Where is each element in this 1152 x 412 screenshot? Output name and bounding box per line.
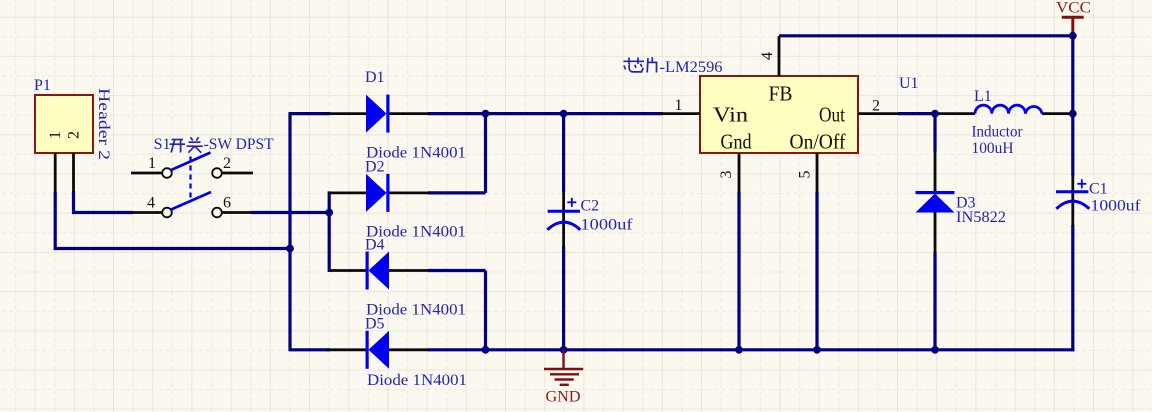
svg-text:-SW DPST: -SW DPST <box>204 136 274 153</box>
diode D3 pins <box>934 151 937 192</box>
diode D3 body <box>916 191 955 213</box>
wire: bottom ground bus <box>290 348 1074 351</box>
wire: Out row to L1 <box>898 112 938 115</box>
switch S1 label <box>154 136 274 153</box>
svg-text:2: 2 <box>66 131 83 139</box>
junction dot pin5 bus <box>813 346 821 354</box>
svg-text:Out: Out <box>819 103 845 127</box>
header P1 box <box>35 95 93 153</box>
svg-text:Header 2: Header 2 <box>95 88 112 160</box>
switch link dashed <box>189 157 191 200</box>
svg-text:1: 1 <box>675 97 683 114</box>
svg-text:Diode 1N4001: Diode 1N4001 <box>367 372 467 389</box>
svg-text:On/Off: On/Off <box>790 130 846 154</box>
svg-text:GND: GND <box>546 389 581 406</box>
svg-text:D2: D2 <box>365 159 385 176</box>
P1 pin 1 stub <box>54 153 57 193</box>
svg-text:1: 1 <box>47 131 64 139</box>
glyph 芯 <box>624 58 645 72</box>
junction dot pin3 bus <box>735 346 743 354</box>
diode D4 pins <box>329 269 367 272</box>
svg-text:VCC: VCC <box>1056 0 1091 17</box>
svg-text:L1: L1 <box>974 88 992 105</box>
chip pin 2 lead <box>858 112 898 115</box>
svg-text:1000uf: 1000uf <box>1091 198 1142 215</box>
diode D5 pins <box>327 348 367 351</box>
chip pin 3 lead <box>738 153 741 193</box>
svg-text:1000uf: 1000uf <box>581 217 634 234</box>
glyph 片 <box>647 57 657 72</box>
chip pin 5 lead <box>816 153 819 193</box>
VCC power symbol <box>1062 17 1084 36</box>
svg-text:4: 4 <box>147 195 155 212</box>
svg-text:C2: C2 <box>581 198 600 215</box>
wire: left vertical bus x=290 <box>288 112 291 351</box>
chip pin 4 lead <box>778 36 781 76</box>
wire: D2/D4 left vertical x=329 <box>328 191 331 272</box>
glyph 关 <box>187 137 203 152</box>
svg-text:-LM2596: -LM2596 <box>660 59 723 76</box>
switch pin 2 lead <box>222 172 253 175</box>
svg-text:6: 6 <box>223 195 231 212</box>
svg-text:1: 1 <box>148 155 156 172</box>
junction dot D3 top <box>931 110 939 118</box>
junction dot D3 bus <box>931 346 939 354</box>
chip label 芯片-LM2596 <box>624 57 723 76</box>
wire: D4 row <box>428 269 486 272</box>
diode D5 body <box>366 331 390 369</box>
wire: D3 bottom to bus <box>933 252 936 350</box>
P1 pin 2 stub <box>72 153 75 192</box>
switch arm bottom pole <box>170 192 211 210</box>
junction dot D1/D2 <box>482 110 490 118</box>
capacitor C2 body <box>547 198 580 230</box>
svg-text:FB: FB <box>769 82 793 106</box>
chip pin 1 lead <box>661 112 700 115</box>
wire: switch pin6 to diode bus <box>251 211 329 214</box>
capacitor C1 pins <box>1071 175 1074 227</box>
svg-text:Inductor: Inductor <box>972 124 1024 141</box>
switch contact circle pin6 <box>212 208 222 218</box>
svg-text:4: 4 <box>759 52 776 60</box>
switch contact circle pin4 <box>162 208 172 218</box>
wire: top row from left vertical to Vin <box>290 112 663 115</box>
junction dot FB/VCC <box>1069 32 1077 40</box>
svg-text:3: 3 <box>718 171 735 179</box>
diode D2 pins <box>329 191 367 194</box>
svg-text:C1: C1 <box>1089 181 1108 198</box>
junction dot L1 right <box>1069 110 1077 118</box>
wire: D4/D5 join vertical x=485.5 <box>484 271 487 352</box>
diode D1 pins <box>327 112 367 115</box>
switch pin 1 lead <box>131 172 162 175</box>
switch pin 4 lead <box>133 211 162 214</box>
wire: On/Off pin5 to bus <box>815 192 818 350</box>
switch contact circle pin2 <box>212 168 222 178</box>
svg-text:IN5822: IN5822 <box>956 209 1006 226</box>
wire: C2 bottom to bus <box>562 247 565 350</box>
wire: Gnd pin3 to bus <box>737 192 740 350</box>
junction dot D4/D5 <box>482 346 490 354</box>
wire: D3 top <box>933 114 936 152</box>
svg-text:S1: S1 <box>154 136 171 153</box>
svg-text:D1: D1 <box>365 69 385 86</box>
wire: C2 top from row <box>562 114 565 192</box>
glyph 开 <box>170 140 186 153</box>
svg-text:U1: U1 <box>899 75 919 92</box>
wire: FB top run <box>779 34 1073 37</box>
junction dot P1 run <box>286 245 294 253</box>
svg-text:Gnd: Gnd <box>721 130 752 154</box>
svg-text:5: 5 <box>797 171 814 179</box>
diode D4 body <box>366 252 390 290</box>
diode D1 body <box>366 95 390 133</box>
svg-text:D4: D4 <box>365 237 385 254</box>
wire: C1 bottom to bus <box>1071 225 1074 351</box>
capacitor C2 pins <box>562 191 565 248</box>
wire: D1/D2 join vertical x=485.5 <box>484 112 487 193</box>
inductor L1 body <box>975 105 1042 113</box>
svg-text:100uH: 100uH <box>972 140 1014 157</box>
ground symbol <box>544 350 583 385</box>
svg-text:2: 2 <box>223 155 231 172</box>
switch pin 6 lead <box>222 211 251 214</box>
wire: VCC vertical x=1073 <box>1071 34 1074 175</box>
svg-text:Vin: Vin <box>713 103 749 127</box>
switch contact circle pin1 <box>162 168 172 178</box>
inductor L1 leads <box>938 112 975 115</box>
wire: D2 row <box>428 191 486 194</box>
wire: P1 pin2 to switch <box>74 191 134 213</box>
junction dot C2 top <box>560 110 568 118</box>
switch arm top pole <box>170 153 211 171</box>
svg-text:2: 2 <box>872 98 880 115</box>
capacitor C1 body <box>1056 179 1089 209</box>
diode D2 body <box>366 174 390 212</box>
chip U? LM2596 box <box>700 76 858 153</box>
GND junction dot <box>560 346 568 354</box>
svg-text:P1: P1 <box>34 77 51 94</box>
svg-text:D5: D5 <box>365 316 385 333</box>
junction dot switch bus <box>325 209 333 217</box>
wire: P1 pin1 run <box>55 192 290 249</box>
